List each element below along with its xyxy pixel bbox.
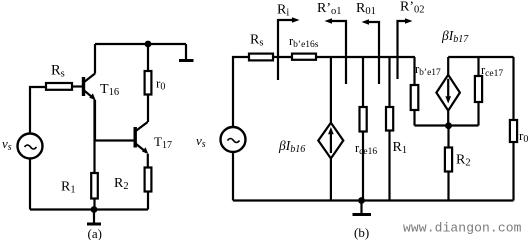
svg-text:vs: vs <box>196 133 206 150</box>
controlled source beta-I-b16 <box>318 57 343 201</box>
svg-text:rb’e16s: rb’e16s <box>289 34 319 50</box>
source vs (b) <box>221 127 246 152</box>
svg-text:rce17: rce17 <box>481 63 503 79</box>
svg-text:R1: R1 <box>61 180 76 196</box>
wire Rs to T16 base (a) <box>72 85 83 87</box>
junction dot top rail (a) <box>145 41 152 48</box>
transistor T16 <box>84 44 96 141</box>
tilde of vs (b) <box>228 139 240 143</box>
svg-text:R’o1: R’o1 <box>317 1 342 17</box>
wire main top rail (b) <box>316 56 415 58</box>
svg-text:r0: r0 <box>156 76 165 93</box>
wire e17 node <box>415 124 479 126</box>
arrow R'o1 <box>325 18 347 84</box>
resistor Rs (a) <box>46 83 72 90</box>
wire T16 emitter down to R1 (a) <box>93 100 95 174</box>
svg-text:Rs: Rs <box>250 33 263 49</box>
wire bottom rail (b) <box>233 199 514 201</box>
svg-text:βIb16: βIb16 <box>278 138 305 155</box>
ground top right (a) <box>179 44 194 61</box>
svg-text:βIb17: βIb17 <box>441 28 469 45</box>
wire vs top to Rs (b) <box>233 57 249 127</box>
wire top rail (a) <box>95 43 186 45</box>
arrow R01 <box>362 19 380 84</box>
resistor rbe16s <box>292 54 316 60</box>
resistor rbe17 <box>411 57 419 126</box>
svg-text:Rs: Rs <box>51 63 65 80</box>
resistor rce16 <box>360 57 367 201</box>
svg-text:R’02: R’02 <box>400 0 425 16</box>
svg-text:T17: T17 <box>154 134 172 151</box>
ground bottom (a) <box>87 210 101 225</box>
source vs (a) <box>18 134 43 159</box>
wire bottom rail (a) <box>30 208 148 210</box>
svg-text:(b): (b) <box>354 225 369 240</box>
resistor R2 (a) <box>145 168 152 210</box>
wire right top rail (b) <box>448 56 513 58</box>
arrow Ri <box>278 17 300 80</box>
resistor R1 (a) <box>91 173 98 210</box>
svg-text:Ri: Ri <box>277 3 289 19</box>
resistor r0 (a) <box>145 44 152 122</box>
svg-text:(a): (a) <box>88 226 102 240</box>
svg-text:R1: R1 <box>393 140 408 156</box>
ground bottom (b) <box>353 201 372 215</box>
resistor rce17 <box>475 57 482 126</box>
svg-text:R2: R2 <box>114 176 129 192</box>
svg-text:R2: R2 <box>456 153 471 169</box>
transistor T17 <box>95 122 149 168</box>
svg-text:vs: vs <box>2 136 12 153</box>
arrow R'02 <box>398 18 413 79</box>
svg-text:rb’e17: rb’e17 <box>415 62 441 78</box>
wire vs bottom (a) <box>29 159 31 210</box>
tilde of vs (a) <box>25 145 37 149</box>
junction dot e17 node <box>445 122 452 129</box>
wire vs top to Rs (a) <box>30 87 46 134</box>
wire vs bottom (b) <box>232 152 234 201</box>
resistor Rs (b) <box>249 54 273 61</box>
svg-text:R01: R01 <box>356 1 376 17</box>
svg-text:rce16: rce16 <box>355 141 377 157</box>
svg-text:r0: r0 <box>519 128 528 145</box>
wire Rs to rbe16s (b) <box>273 56 292 58</box>
resistor R1 (b) <box>386 57 393 201</box>
junction dot bottom rail (b) <box>358 197 365 204</box>
resistor R2 (b) <box>445 126 452 201</box>
svg-text:www.diangon.com: www.diangon.com <box>403 221 522 236</box>
junction dot bottom rail (a) <box>91 206 98 213</box>
svg-text:T16: T16 <box>100 82 119 98</box>
resistor r0 (b) <box>510 57 517 201</box>
controlled source beta-I-b17 <box>436 57 460 126</box>
